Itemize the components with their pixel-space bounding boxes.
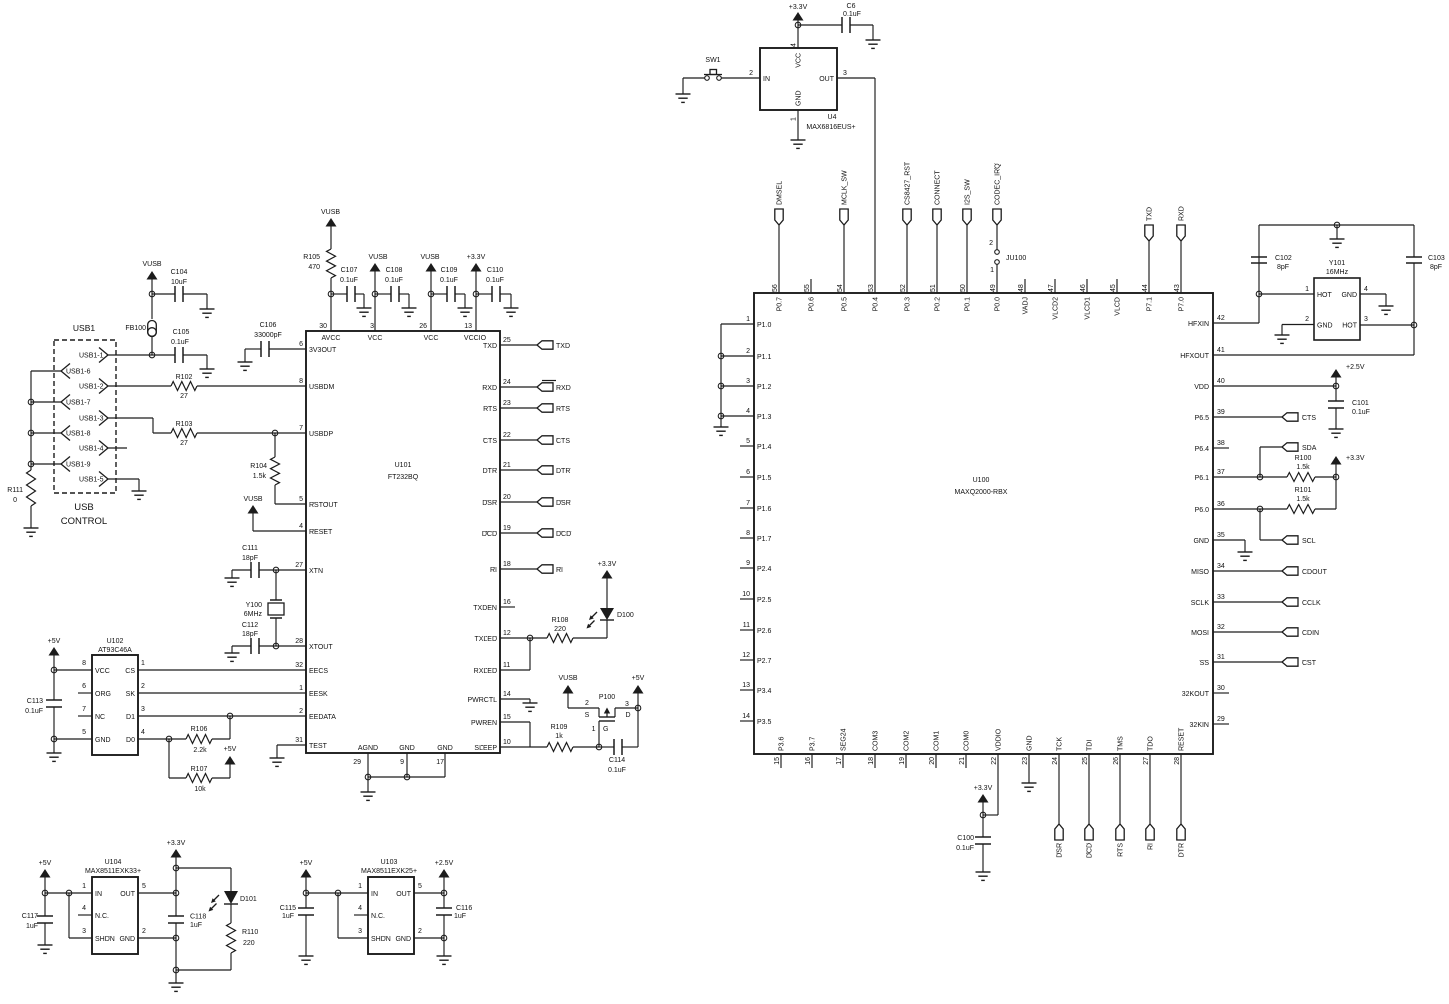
flag DMSEL bbox=[775, 181, 784, 225]
svg-text:CST: CST bbox=[1302, 660, 1317, 667]
resistor R103 27 bbox=[171, 421, 197, 447]
power +3.3V (pullups) bbox=[1331, 455, 1365, 477]
U101 pin 24 RXD bbox=[482, 379, 511, 392]
svg-text:R101: R101 bbox=[1295, 487, 1312, 494]
U103 pin 2 GND bbox=[395, 928, 422, 943]
svg-text:C109: C109 bbox=[441, 267, 458, 274]
svg-text:SW1: SW1 bbox=[705, 57, 720, 64]
power VUSB (VCC pin26) bbox=[420, 254, 439, 294]
ground SW1 bbox=[676, 94, 691, 102]
svg-text:21: 21 bbox=[503, 462, 511, 469]
U100 pin 18 COM3 bbox=[868, 731, 880, 765]
junction HOT3 bbox=[1411, 322, 1417, 328]
U100 pin 26 TMS bbox=[1113, 736, 1125, 765]
ground U104 bbox=[169, 983, 184, 991]
resistor R101 1.5k bbox=[1287, 477, 1336, 514]
svg-text:10: 10 bbox=[503, 739, 511, 746]
svg-text:I2S_SW: I2S_SW bbox=[965, 179, 972, 205]
svg-text:R108: R108 bbox=[552, 617, 569, 624]
junction bottom U104 bbox=[173, 967, 179, 973]
U100 pin 15 P3.6 bbox=[774, 736, 786, 764]
svg-text:P0.0: P0.0 bbox=[995, 297, 1002, 312]
junction GND U104 bbox=[173, 935, 179, 941]
svg-text:27: 27 bbox=[1143, 757, 1150, 765]
svg-text:C100: C100 bbox=[957, 835, 974, 842]
svg-text:45: 45 bbox=[1110, 284, 1117, 292]
U104 pin 5 OUT bbox=[120, 883, 146, 898]
svg-text:1: 1 bbox=[358, 883, 362, 890]
wire +5V to IN U103 bbox=[306, 892, 368, 894]
U101 pin 10 SLEEP bbox=[474, 739, 510, 752]
junction VCCIO bbox=[473, 291, 479, 297]
svg-text:1.5k: 1.5k bbox=[253, 473, 267, 480]
svg-text:RESET: RESET bbox=[1179, 727, 1186, 751]
wire GND U102 bbox=[54, 738, 92, 740]
svg-text:DTR: DTR bbox=[483, 468, 497, 475]
svg-text:40: 40 bbox=[1217, 378, 1225, 385]
svg-text:6MHz: 6MHz bbox=[244, 611, 263, 618]
svg-text:SHDN: SHDN bbox=[371, 936, 391, 943]
svg-text:1: 1 bbox=[82, 883, 86, 890]
U100 pin 56 P0.7 bbox=[772, 284, 784, 311]
svg-text:CTS: CTS bbox=[556, 438, 570, 445]
capacitor C109 0.1uF bbox=[431, 267, 465, 308]
svg-text:P6.0: P6.0 bbox=[1195, 507, 1210, 514]
U103 pin 4 N.C. bbox=[354, 905, 385, 920]
svg-text:TXDEN: TXDEN bbox=[473, 605, 497, 612]
U100 pin 46 stub bbox=[1086, 279, 1088, 293]
svg-text:23: 23 bbox=[503, 400, 511, 407]
svg-text:C110: C110 bbox=[487, 267, 503, 274]
svg-text:1uF: 1uF bbox=[190, 922, 202, 929]
capacitor C113 0.1uF bbox=[25, 670, 62, 739]
svg-text:P0.7: P0.7 bbox=[777, 297, 784, 312]
wire U101 RI to flag bbox=[500, 568, 537, 570]
junction VDDIO bbox=[980, 812, 986, 818]
flag CS8427_RST bbox=[903, 161, 912, 225]
wire TDO to flag bbox=[1149, 754, 1151, 824]
svg-text:10uF: 10uF bbox=[171, 279, 187, 286]
U100 pin 5 P1.4 bbox=[746, 438, 771, 451]
junction P1.3 bbox=[718, 413, 724, 419]
U100 pin 55 stub bbox=[810, 279, 812, 293]
svg-text:1uF: 1uF bbox=[282, 913, 294, 920]
svg-text:CS: CS bbox=[125, 668, 135, 675]
USB1 pin USB1-9 bbox=[61, 457, 91, 472]
svg-text:18pF: 18pF bbox=[242, 631, 258, 638]
U100 pin 22 VDDIO bbox=[991, 728, 1003, 765]
svg-text:DTR: DTR bbox=[1179, 843, 1186, 857]
power +5V (U104) bbox=[39, 860, 52, 893]
svg-text:USB1-9: USB1-9 bbox=[66, 462, 91, 469]
svg-text:RXLED: RXLED bbox=[474, 668, 497, 675]
svg-text:USB1: USB1 bbox=[73, 323, 95, 333]
Y101 pin 2 GND bbox=[1305, 316, 1332, 330]
svg-text:C112: C112 bbox=[242, 622, 258, 629]
svg-text:CCLK: CCLK bbox=[1302, 600, 1321, 607]
U100 pin 13 stub bbox=[740, 689, 754, 691]
junction +3.3V branch bbox=[173, 865, 179, 871]
wire HFXOUT bbox=[1213, 325, 1414, 355]
svg-text:3: 3 bbox=[358, 928, 362, 935]
flag RXD (U100) bbox=[1177, 206, 1186, 241]
resistor R106 2.2k bbox=[186, 716, 230, 754]
svg-text:C104: C104 bbox=[171, 269, 188, 276]
svg-text:18: 18 bbox=[503, 561, 511, 568]
U100 pin 31 SS bbox=[1200, 654, 1225, 667]
svg-text:SS: SS bbox=[1200, 660, 1210, 667]
U100 pin 7 P1.6 bbox=[746, 500, 771, 513]
svg-text:C101: C101 bbox=[1352, 400, 1369, 407]
svg-text:MAXQ2000-RBX: MAXQ2000-RBX bbox=[955, 489, 1008, 496]
svg-text:4: 4 bbox=[358, 905, 362, 912]
svg-text:R105: R105 bbox=[303, 254, 320, 261]
svg-text:1uF: 1uF bbox=[454, 913, 466, 920]
wire USB1-2 to R102 bbox=[108, 385, 171, 387]
svg-text:C105: C105 bbox=[173, 329, 190, 336]
capacitor C103 8pF bbox=[1406, 225, 1445, 325]
ground Y101 pin2 bbox=[1275, 335, 1290, 343]
svg-text:4: 4 bbox=[746, 408, 750, 415]
svg-text:8: 8 bbox=[299, 378, 303, 385]
U100 pin 6 P1.5 bbox=[746, 469, 771, 482]
svg-text:1: 1 bbox=[746, 316, 750, 323]
svg-text:USB1-8: USB1-8 bbox=[66, 431, 91, 438]
flag TXD bbox=[537, 341, 570, 350]
svg-text:2: 2 bbox=[299, 708, 303, 715]
svg-text:C6: C6 bbox=[847, 3, 856, 10]
svg-text:24: 24 bbox=[1052, 757, 1059, 765]
svg-text:14: 14 bbox=[503, 691, 511, 698]
jumper JU100 bbox=[989, 240, 1026, 274]
wire P6.1 bbox=[1213, 476, 1287, 478]
transistor P100 p-FET bbox=[568, 694, 638, 747]
wire U101 TXD to flag bbox=[500, 344, 537, 346]
flag RI bbox=[537, 565, 563, 574]
svg-text:49: 49 bbox=[990, 284, 997, 292]
junction P1.1 bbox=[718, 353, 724, 359]
svg-text:D1: D1 bbox=[126, 714, 135, 721]
svg-text:EECS: EECS bbox=[309, 668, 328, 675]
svg-text:SCLK: SCLK bbox=[1191, 600, 1210, 607]
U100 pin 11 P2.6 bbox=[743, 622, 772, 635]
wire U101 DTR to flag bbox=[500, 469, 537, 471]
svg-text:39: 39 bbox=[1217, 409, 1225, 416]
junction AVCC bbox=[328, 291, 334, 297]
svg-text:CDOUT: CDOUT bbox=[1302, 569, 1328, 576]
wire GND35 bbox=[1213, 540, 1245, 552]
junction R106/EEDATA bbox=[227, 713, 233, 719]
svg-text:R102: R102 bbox=[176, 374, 193, 381]
U101 pin 4 RESET bbox=[299, 523, 333, 536]
U100 pin 13 P3.4 bbox=[742, 682, 771, 695]
junction OUT U104 bbox=[173, 890, 179, 896]
wire AVCC pin bbox=[330, 294, 332, 331]
capacitor C6 0.1uF bbox=[798, 3, 873, 40]
U100 pin 9 stub bbox=[740, 567, 754, 569]
capacitor C115 1uF bbox=[280, 893, 314, 956]
U101 pin 9 GND bbox=[399, 745, 415, 766]
svg-text:220: 220 bbox=[554, 626, 566, 633]
svg-text:SCL: SCL bbox=[1302, 538, 1316, 545]
svg-text:FT232BQ: FT232BQ bbox=[388, 474, 419, 481]
svg-text:TCK: TCK bbox=[1057, 737, 1064, 751]
U100 pin 21 stub bbox=[965, 754, 967, 768]
svg-text:5: 5 bbox=[142, 883, 146, 890]
svg-text:24: 24 bbox=[503, 379, 511, 386]
svg-text:2: 2 bbox=[585, 700, 589, 707]
svg-text:P100: P100 bbox=[599, 694, 615, 701]
junction C113 bottom bbox=[51, 736, 57, 742]
svg-text:TMS: TMS bbox=[1118, 736, 1125, 751]
U100 pin 17 SEG24 bbox=[836, 728, 848, 764]
U100 pin 32 MOSI bbox=[1191, 624, 1225, 637]
wire C114 to +5V bbox=[637, 708, 639, 747]
svg-text:1: 1 bbox=[791, 117, 798, 121]
resistor R104 1.5k bbox=[250, 433, 279, 504]
svg-text:SDA: SDA bbox=[1302, 445, 1317, 452]
junction GND U103 bbox=[441, 935, 447, 941]
crystal Y100 6MHz bbox=[244, 570, 284, 646]
svg-text:7: 7 bbox=[82, 706, 86, 713]
wire TDI to flag bbox=[1088, 754, 1090, 824]
junction XTN bbox=[273, 567, 279, 573]
junction P6.1 bbox=[1257, 474, 1263, 480]
U101 TXDEN stub bbox=[500, 606, 515, 608]
resistor R109 1k bbox=[547, 724, 573, 752]
svg-text:11: 11 bbox=[503, 662, 510, 669]
svg-text:MISO: MISO bbox=[1191, 569, 1209, 576]
svg-text:C107: C107 bbox=[341, 267, 358, 274]
IC U103 MAX8511EXK25+ body bbox=[361, 859, 417, 954]
svg-text:P0.4: P0.4 bbox=[873, 297, 880, 312]
U101 pin 27 XTN bbox=[295, 562, 323, 575]
wire U100 to CDIN flag bbox=[1213, 631, 1282, 633]
svg-text:23: 23 bbox=[1022, 757, 1029, 765]
U101 pin 14 PWRCTL bbox=[467, 691, 510, 704]
capacitor C105 0.1uF bbox=[171, 329, 207, 369]
wire TXLED bbox=[500, 637, 547, 639]
svg-text:U102: U102 bbox=[107, 638, 124, 645]
svg-text:+5V: +5V bbox=[39, 860, 52, 867]
flag DSR bbox=[1055, 824, 1064, 858]
svg-text:4: 4 bbox=[791, 43, 798, 47]
wire VCC U102 bbox=[54, 669, 92, 671]
svg-text:5: 5 bbox=[746, 438, 750, 445]
svg-text:RESET: RESET bbox=[309, 529, 333, 536]
svg-text:1: 1 bbox=[1305, 286, 1309, 293]
svg-text:USBDP: USBDP bbox=[309, 431, 333, 438]
U100 pin 47 VLCD2 bbox=[1048, 284, 1060, 319]
U102 pin 8 VCC bbox=[82, 660, 110, 675]
wire U101 CTS to flag bbox=[500, 439, 537, 441]
capacitor C102 8pF bbox=[1251, 225, 1292, 294]
wire to ground U104 bbox=[175, 970, 177, 983]
U100 pin 19 COM2 bbox=[899, 731, 911, 765]
wire TEST to ground bbox=[277, 745, 306, 758]
svg-text:USB: USB bbox=[74, 502, 94, 513]
power +3.3V (VCCIO) bbox=[467, 254, 486, 294]
U104 pin 2 GND bbox=[119, 928, 146, 943]
U100 pin 14 P3.5 bbox=[742, 713, 771, 726]
svg-text:RTS: RTS bbox=[483, 406, 497, 413]
wire TXD flag to P7.1 bbox=[1148, 241, 1150, 293]
svg-text:DSR: DSR bbox=[1057, 843, 1064, 858]
wire DMSEL to U100 bbox=[778, 225, 780, 293]
flag DSR bbox=[537, 498, 571, 507]
wire OUT U104 bbox=[138, 892, 176, 894]
svg-text:USB1-3: USB1-3 bbox=[79, 416, 104, 423]
U101 pin 5 RSTOUT bbox=[299, 496, 338, 509]
resistor R100 1.5k bbox=[1287, 455, 1336, 482]
U100 pin 44 P7.1 bbox=[1142, 284, 1154, 311]
wire RXLED up bbox=[500, 638, 530, 670]
junction shield bus at USB1-9 bbox=[28, 461, 34, 467]
power +5V (P100 drain) bbox=[632, 675, 645, 708]
svg-text:27: 27 bbox=[295, 562, 303, 569]
wire I2S_SW to U100 bbox=[966, 225, 968, 293]
U100 pin 3 P1.2 bbox=[746, 378, 771, 391]
svg-text:HOT: HOT bbox=[1317, 292, 1333, 299]
svg-text:P0.6: P0.6 bbox=[809, 297, 816, 312]
svg-text:P1.4: P1.4 bbox=[757, 444, 772, 451]
U100 pin 35 GND bbox=[1193, 532, 1224, 545]
svg-text:+2.5V: +2.5V bbox=[435, 860, 454, 867]
svg-text:P3.5: P3.5 bbox=[757, 719, 772, 726]
wire D1 to EEDATA bbox=[138, 715, 306, 717]
capacitor C117 1uF bbox=[22, 893, 53, 945]
svg-text:1.5k: 1.5k bbox=[1296, 496, 1310, 503]
svg-text:VDDIO: VDDIO bbox=[996, 728, 1003, 751]
flag RXD bbox=[537, 381, 571, 393]
LED D101 bbox=[209, 891, 257, 912]
power VUSB (VCC pin3) bbox=[368, 254, 387, 294]
svg-text:XTN: XTN bbox=[309, 568, 323, 575]
svg-text:GND: GND bbox=[119, 936, 135, 943]
svg-text:D100: D100 bbox=[617, 612, 634, 619]
U102 pin 1 CS bbox=[125, 660, 145, 675]
ground C6 bbox=[866, 40, 881, 48]
ground C106 bbox=[238, 362, 253, 370]
svg-text:17: 17 bbox=[436, 759, 444, 766]
svg-text:2: 2 bbox=[989, 240, 993, 247]
USB1 pin USB1-1 bbox=[79, 348, 108, 363]
capacitor C107 0.1uF bbox=[331, 267, 364, 308]
svg-text:P1.7: P1.7 bbox=[757, 536, 772, 543]
svg-text:41: 41 bbox=[1217, 347, 1225, 354]
power +3.3V (U4) bbox=[789, 4, 808, 25]
ground C107 bbox=[357, 308, 372, 316]
Y101 pin 4 GND bbox=[1341, 286, 1368, 299]
U100 pin 8 stub bbox=[740, 537, 754, 539]
svg-text:MAX8511EXK33+: MAX8511EXK33+ bbox=[85, 868, 141, 875]
svg-text:470: 470 bbox=[308, 264, 320, 271]
IC U100 MAXQ2000-RBX body bbox=[754, 293, 1213, 754]
svg-text:P2.7: P2.7 bbox=[757, 658, 772, 665]
junction OUT U103 bbox=[441, 890, 447, 896]
flag CTS (U100) bbox=[1282, 413, 1316, 422]
svg-text:3: 3 bbox=[141, 706, 145, 713]
junction R100/R101 bbox=[1333, 474, 1339, 480]
svg-text:D: D bbox=[625, 712, 630, 719]
U101 pin 15 PWREN bbox=[471, 714, 511, 727]
wire U4 OUT to P0.4 bbox=[837, 78, 875, 293]
svg-text:+5V: +5V bbox=[224, 746, 237, 753]
wire GND U104 bbox=[138, 937, 176, 939]
U100 pin 30 stub bbox=[1213, 692, 1229, 694]
U100 pin 51 P0.2 bbox=[930, 284, 942, 311]
flag CTS bbox=[537, 436, 570, 445]
svg-text:17: 17 bbox=[836, 757, 843, 765]
svg-text:38: 38 bbox=[1217, 440, 1225, 447]
svg-text:VUSB: VUSB bbox=[243, 496, 262, 503]
U100 pin 48 VADJ bbox=[1018, 284, 1030, 314]
junction C104 bbox=[149, 291, 155, 297]
U100 pin 11 stub bbox=[740, 629, 754, 631]
junction AGND bbox=[365, 774, 371, 780]
ground USB1-5 bbox=[132, 491, 147, 499]
wire R109 to gate bbox=[573, 746, 599, 748]
wire Y101 pin1 bbox=[1259, 293, 1314, 295]
svg-text:C103: C103 bbox=[1428, 255, 1445, 262]
wire R104 to RSTOUT bbox=[275, 503, 306, 505]
svg-text:8pF: 8pF bbox=[1430, 264, 1442, 271]
U100 pin 48 stub bbox=[1024, 279, 1026, 293]
ground C115 bbox=[299, 956, 314, 964]
svg-text:44: 44 bbox=[1142, 284, 1149, 292]
svg-text:VCC: VCC bbox=[368, 335, 383, 342]
svg-text:0: 0 bbox=[13, 497, 17, 504]
svg-text:5: 5 bbox=[82, 729, 86, 736]
IC U4 MAX6816EUS+ body bbox=[760, 48, 856, 131]
svg-text:IN: IN bbox=[371, 891, 378, 898]
wire USB1-6/7/8/9 shield bus bbox=[31, 371, 61, 470]
wire P6.0 bbox=[1213, 508, 1287, 510]
svg-text:USB1-5: USB1-5 bbox=[79, 477, 104, 484]
svg-text:ORG: ORG bbox=[95, 691, 111, 698]
USB1 pin USB1-5 bbox=[79, 472, 108, 487]
power +5V (U103) bbox=[300, 860, 313, 893]
svg-text:GND: GND bbox=[796, 90, 803, 106]
flag CST bbox=[1282, 658, 1317, 667]
svg-text:5: 5 bbox=[418, 883, 422, 890]
svg-text:1k: 1k bbox=[555, 733, 563, 740]
U100 pin 1 P1.0 bbox=[746, 316, 771, 329]
svg-text:DSR: DSR bbox=[556, 500, 571, 507]
svg-text:R104: R104 bbox=[250, 463, 267, 470]
svg-text:COM3: COM3 bbox=[873, 731, 880, 751]
ferrite bead FB100 bbox=[125, 294, 156, 355]
svg-text:25: 25 bbox=[1082, 757, 1089, 765]
flag I2S_SW bbox=[963, 179, 972, 225]
svg-text:0.1uF: 0.1uF bbox=[440, 277, 458, 284]
U100 pin 23 GND bbox=[1022, 735, 1034, 764]
U100 pin 42 HFXIN bbox=[1188, 315, 1225, 328]
svg-text:VLCD2: VLCD2 bbox=[1053, 297, 1060, 320]
junction C115 bbox=[303, 890, 309, 896]
U100 pin 7 stub bbox=[740, 507, 754, 509]
svg-text:GND: GND bbox=[95, 737, 111, 744]
wire PWRCTL to ground bbox=[500, 699, 530, 703]
svg-text:+5V: +5V bbox=[632, 675, 645, 682]
svg-text:DSR: DSR bbox=[482, 500, 497, 507]
wire VDD bbox=[1213, 385, 1336, 387]
resistor R107 10k bbox=[169, 739, 230, 793]
U100 pin 28 RESET bbox=[1174, 727, 1186, 765]
svg-text:27: 27 bbox=[180, 440, 188, 447]
svg-text:SEG24: SEG24 bbox=[841, 728, 848, 751]
U102 pin 5 GND bbox=[82, 729, 110, 744]
